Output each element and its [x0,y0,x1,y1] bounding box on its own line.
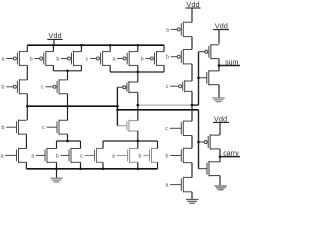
svg-text:b: b [166,55,169,61]
svg-text:Vdd: Vdd [48,31,61,40]
svg-text:a: a [31,153,34,159]
svg-text:b: b [139,153,142,159]
svg-text:Vdd: Vdd [215,21,228,30]
svg-text:c: c [42,125,45,131]
svg-text:a: a [1,153,4,159]
svg-text:b: b [2,85,5,91]
svg-text:carry: carry [223,150,239,157]
svg-text:c: c [41,85,44,91]
svg-text:a: a [113,56,116,62]
svg-text:Vdd: Vdd [214,114,227,123]
svg-text:b: b [141,56,144,62]
svg-text:c: c [86,56,89,62]
svg-text:b: b [30,56,33,62]
svg-text:b: b [166,153,169,159]
svg-text:c: c [80,153,83,159]
svg-text:a: a [166,27,169,33]
svg-text:a: a [112,153,115,159]
svg-text:b: b [2,125,5,131]
svg-text:a: a [166,183,169,189]
svg-text:b: b [56,153,59,159]
svg-text:c: c [165,126,168,132]
svg-text:b: b [56,56,59,62]
svg-text:sum: sum [225,59,238,66]
svg-text:a: a [2,56,5,62]
svg-text:c: c [166,84,169,90]
svg-text:Vdd: Vdd [186,0,199,9]
